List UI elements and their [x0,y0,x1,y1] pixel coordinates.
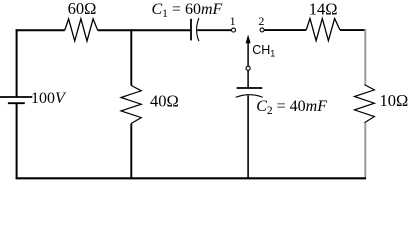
resistor 14ohm [306,19,340,41]
wire left upper segment [16,29,18,97]
capacitor C1 [191,18,199,41]
svg-text:10Ω: 10Ω [380,91,409,110]
switch terminal 1 [232,28,236,32]
switch terminal 2 [260,28,264,32]
wire left lower segment [16,103,18,179]
wire terminal 2 to 14ohm [264,29,306,31]
wire right upper segment [364,29,366,84]
wire top-middle segment [98,29,191,31]
wire C1 to terminal 1 [197,29,231,31]
svg-text:40Ω: 40Ω [150,92,179,111]
switch CH1 arrow [246,35,251,67]
switch CH1 common terminal [246,66,250,70]
wire top-right segment [340,29,366,31]
battery 100V [0,97,32,103]
resistor 60ohm [65,19,98,41]
svg-text:1: 1 [230,14,236,28]
wire 40ohm branch upper [130,29,132,85]
capacitor C2 [236,88,263,97]
svg-text:60Ω: 60Ω [68,0,97,18]
svg-text:14Ω: 14Ω [309,0,338,19]
resistor 40ohm [121,86,141,124]
wire right lower segment [364,123,366,179]
wire switch to C2 [247,70,249,88]
svg-text:2: 2 [258,14,264,28]
wire C2 branch lower [247,95,249,178]
wire top-left segment [16,29,65,31]
resistor 10ohm [354,85,374,123]
svg-text:C1 = 60mF: C1 = 60mF [152,1,223,20]
wire 40ohm branch lower [130,123,132,178]
svg-text:100V: 100V [31,90,67,107]
svg-text:C2 = 40mF: C2 = 40mF [256,98,327,117]
wire bottom rail [16,177,366,179]
